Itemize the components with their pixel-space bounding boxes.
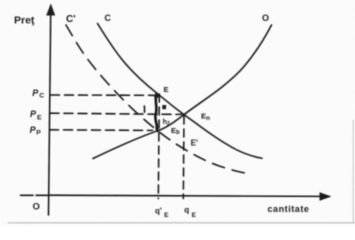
- point E_b junction: [156, 129, 159, 132]
- svg-text:cantitate: cantitate: [268, 204, 310, 214]
- svg-text:Preţ: Preţ: [14, 15, 35, 27]
- svg-text:q': q': [155, 206, 162, 215]
- svg-text:C': C': [66, 14, 76, 25]
- svg-text:q: q: [184, 205, 189, 214]
- demand curve C: [98, 24, 263, 159]
- svg-text:P: P: [30, 109, 37, 119]
- supply curve O: [93, 25, 272, 159]
- svg-text:O: O: [33, 201, 40, 211]
- svg-text:O: O: [262, 13, 269, 23]
- y-axis (Pret axis): [46, 4, 55, 216]
- svg-text:E: E: [164, 85, 169, 94]
- svg-text:C: C: [105, 13, 112, 23]
- svg-text:E: E: [192, 212, 197, 219]
- quantity line q_E (dashed vertical): [182, 116, 185, 199]
- shifted demand curve C' (dashed): [66, 25, 251, 174]
- svg-text:E': E': [191, 139, 198, 148]
- square marker near segment: [162, 105, 166, 109]
- scan border bottom: [8, 222, 355, 224]
- svg-text:h2: h2: [163, 119, 170, 127]
- svg-text:P: P: [32, 88, 39, 98]
- svg-text:P: P: [36, 129, 41, 136]
- price line P_E (dashed): [50, 113, 182, 114]
- svg-text:E: E: [37, 115, 42, 122]
- bold segment E to E_b: [155, 95, 157, 130]
- x-axis (cantitate axis): [21, 192, 332, 201]
- svg-text:C: C: [39, 92, 44, 99]
- point E marker: [154, 94, 159, 99]
- price line P_C (dashed): [51, 94, 154, 96]
- tick label l: [143, 106, 145, 112]
- scan border right: [352, 120, 354, 223]
- svg-text:E: E: [164, 212, 169, 219]
- quantity line q'_E (dashed vertical): [158, 94, 159, 199]
- price line P_P (dashed): [50, 129, 153, 132]
